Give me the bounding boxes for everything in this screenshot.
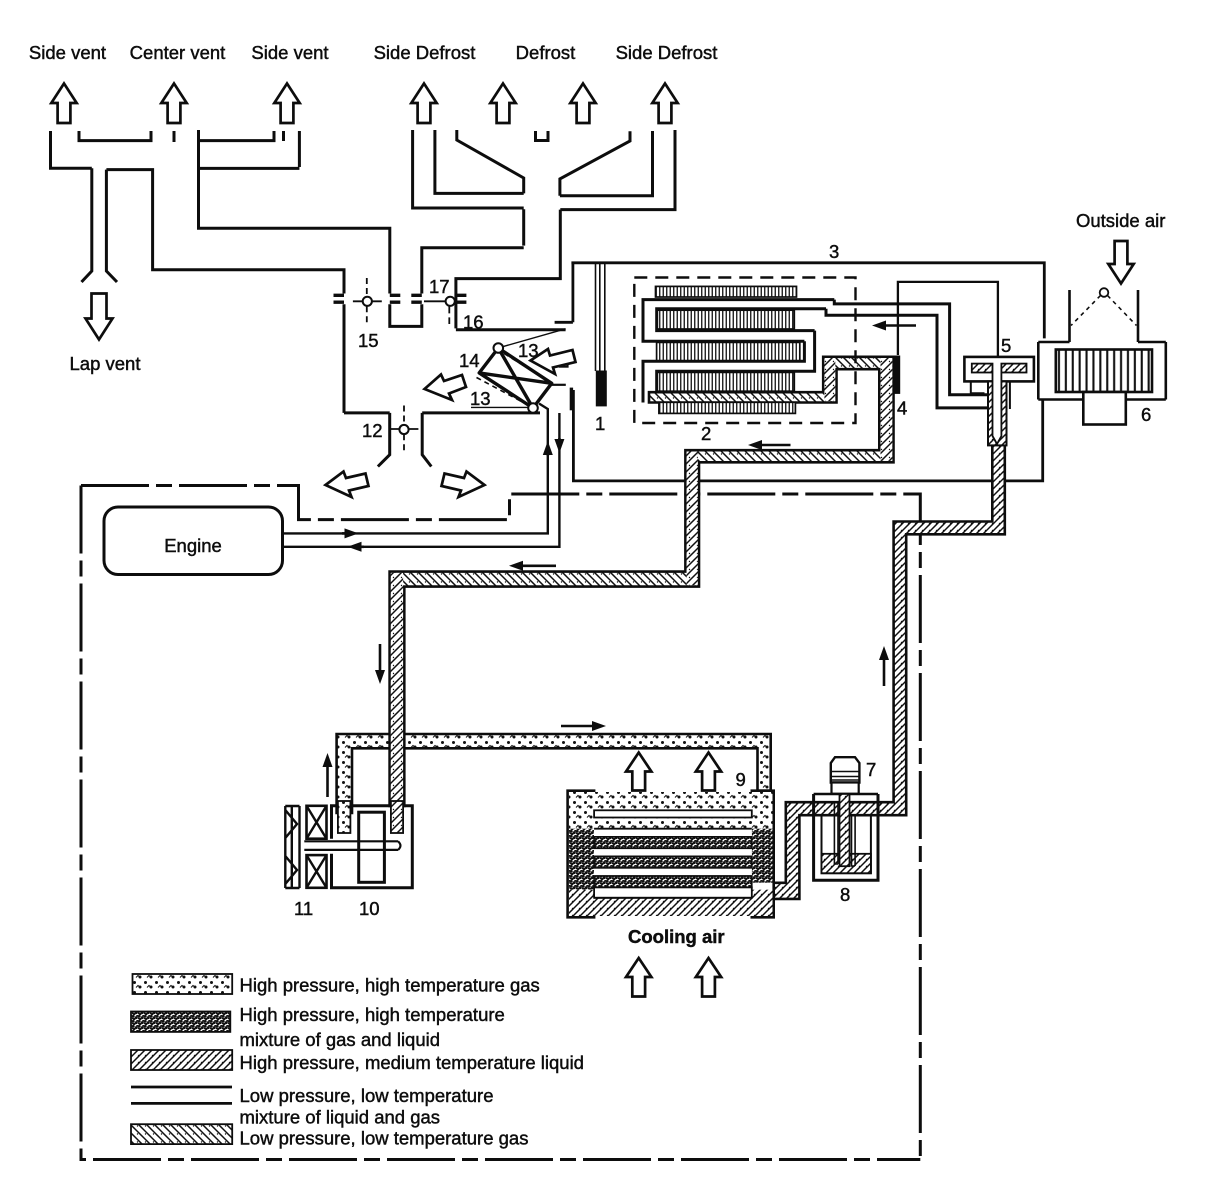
svg-text:1: 1	[595, 413, 605, 434]
svg-text:2: 2	[701, 423, 711, 444]
svg-text:12: 12	[362, 420, 383, 441]
svg-text:High pressure, high temperatur: High pressure, high temperature gas	[240, 975, 540, 996]
svg-text:13: 13	[470, 388, 491, 409]
svg-text:High pressure, medium temperat: High pressure, medium temperature liquid	[240, 1052, 584, 1073]
svg-text:mixture of gas and liquid: mixture of gas and liquid	[240, 1029, 441, 1050]
svg-text:10: 10	[359, 898, 380, 919]
svg-text:17: 17	[429, 276, 450, 297]
svg-text:11: 11	[294, 898, 313, 919]
svg-text:Engine: Engine	[164, 535, 222, 556]
svg-text:14: 14	[459, 350, 480, 371]
svg-text:9: 9	[736, 769, 746, 790]
svg-text:7: 7	[866, 759, 876, 780]
svg-text:High pressure, high temperatur: High pressure, high temperature	[240, 1004, 505, 1025]
svg-text:4: 4	[897, 398, 907, 419]
svg-text:Low pressure, low temperature: Low pressure, low temperature	[240, 1085, 494, 1106]
svg-text:Side Defrost: Side Defrost	[616, 42, 718, 63]
svg-text:Side vent: Side vent	[29, 42, 106, 63]
svg-text:Side vent: Side vent	[251, 42, 328, 63]
svg-text:8: 8	[840, 884, 850, 905]
svg-text:16: 16	[463, 312, 484, 333]
svg-text:3: 3	[829, 241, 839, 262]
svg-text:15: 15	[358, 330, 379, 351]
svg-text:mixture of liquid and gas: mixture of liquid and gas	[240, 1107, 441, 1128]
svg-text:Outside air: Outside air	[1076, 210, 1165, 231]
svg-text:Center vent: Center vent	[130, 42, 226, 63]
svg-text:Side Defrost: Side Defrost	[374, 42, 476, 63]
svg-text:Defrost: Defrost	[516, 42, 576, 63]
svg-text:Lap vent: Lap vent	[70, 353, 141, 374]
svg-text:6: 6	[1141, 404, 1151, 425]
svg-text:Low pressure, low temperature: Low pressure, low temperature gas	[240, 1128, 529, 1149]
svg-text:5: 5	[1001, 335, 1011, 356]
svg-text:Cooling air: Cooling air	[628, 926, 725, 947]
